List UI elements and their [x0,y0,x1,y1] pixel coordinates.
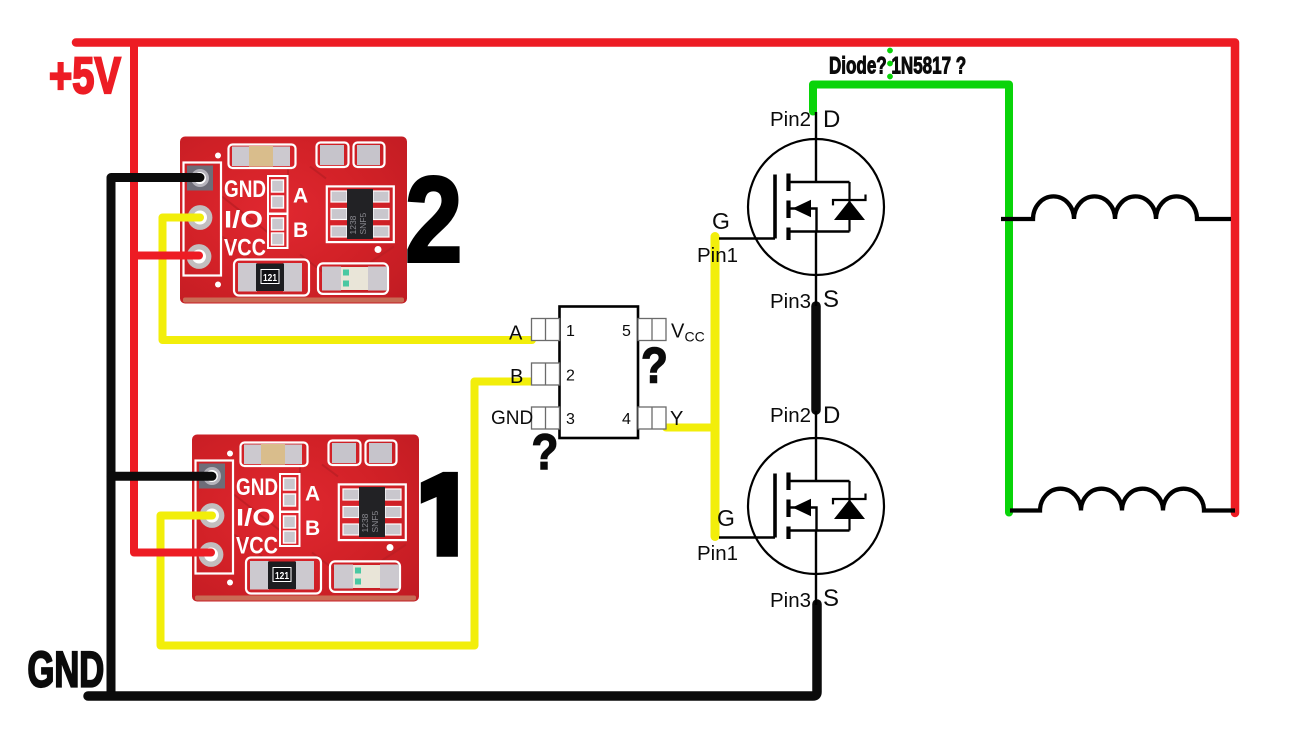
svg-text:D: D [823,106,840,133]
svg-text:Pin2: Pin2 [770,404,811,427]
svg-text:Diode? 1N5817 ?: Diode? 1N5817 ? [829,53,966,80]
inductor L2 bottom [1010,489,1235,511]
svg-text:5: 5 [622,323,631,340]
svg-text:2: 2 [405,152,462,288]
svg-text:V: V [671,321,685,343]
svg-text:1: 1 [566,323,575,340]
svg-text:A: A [509,323,523,345]
svg-text:?: ? [532,423,559,479]
wire: black GND from module 2 down left side [111,178,200,697]
svg-text:G: G [717,505,735,531]
svg-text:Pin3: Pin3 [770,290,811,313]
wire: yellow net Y from gate IC pin 4 [666,424,714,432]
svg-text:S: S [823,585,839,612]
svg-text:Pin1: Pin1 [697,542,738,565]
svg-text:Y: Y [670,408,683,430]
svg-text:2: 2 [566,368,575,385]
label 1 [421,472,458,557]
wire: black branch to module 1 GND [111,472,212,481]
wire: red +5V left vertical to module 1 VCC [134,43,211,553]
wire: green drain wire to inductors [813,85,1009,513]
wire: thick black source-drain link between MOSFETs [811,306,821,410]
svg-text:4: 4 [622,411,631,428]
wire: yellow net B from module 1 I/O to gate IC pin B [161,382,532,646]
wire: yellow net A from module 2 I/O to gate IC pin A [163,218,533,341]
svg-text:?: ? [641,337,668,393]
svg-text:G: G [712,208,730,234]
touch module 1 [192,435,419,602]
svg-text:Pin2: Pin2 [770,108,811,131]
svg-text:CC: CC [685,329,705,345]
svg-text:Pin1: Pin1 [697,244,738,267]
wire: red branch to module 2 VCC [134,252,199,260]
svg-text:3: 3 [566,411,575,428]
IC pin pads [532,319,667,430]
svg-text:Pin3: Pin3 [770,589,811,612]
logic gate IC body U1 [560,307,639,439]
touch module 2 [180,137,407,304]
inductor L1 top [1001,196,1231,219]
svg-text:GND: GND [491,408,533,429]
svg-text:GND: GND [28,642,105,698]
MOSFET Q1 [719,112,884,306]
wire: black bottom GND rail [88,604,817,696]
wire: yellow vertical to both MOSFET gates [711,237,720,537]
svg-text:S: S [823,286,839,313]
MOSFET Q2 [719,411,884,605]
wire: +5V red top rail and right drop [76,43,1235,514]
svg-text:+5V: +5V [49,47,121,104]
green dotted diode link [887,48,893,54]
svg-text:D: D [823,402,840,429]
svg-text:B: B [510,366,523,388]
